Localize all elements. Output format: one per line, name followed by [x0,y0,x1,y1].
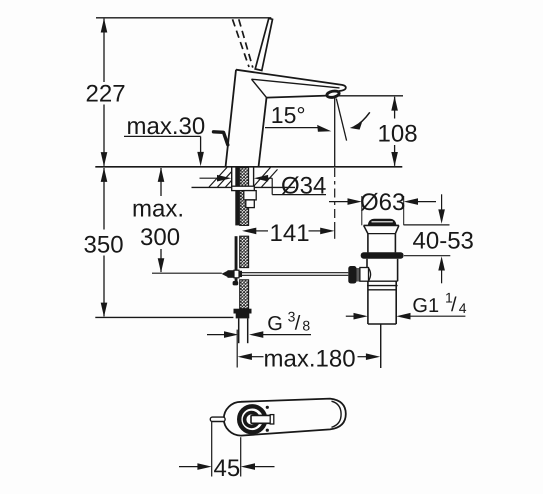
dim 45 [211,422,213,477]
rings [239,406,265,432]
svg-text:/: / [295,313,301,335]
dim 350 bottom reference line [95,316,233,318]
svg-text:350: 350 [84,232,124,259]
pop-up rod vertical [235,167,239,225]
waste body [366,259,368,281]
hatch right [254,167,271,186]
supply tube [238,318,240,343]
shank walls [231,167,233,187]
svg-text:max.: max. [132,196,184,223]
svg-text:108: 108 [378,120,418,147]
dim max300 bottom reference line [152,272,222,274]
dim G3/8 line [207,334,226,336]
knurled knob [348,266,356,284]
svg-text:G1: G1 [412,295,439,317]
curved arrow [355,112,370,126]
dim 227 top reference line [96,17,271,19]
svg-text:227: 227 [86,81,126,108]
svg-text:Ø34: Ø34 [281,173,326,200]
svg-text:141: 141 [270,220,310,247]
pin [210,417,225,421]
svg-text:40-53: 40-53 [413,227,474,254]
dim 227 vertical line [103,19,105,82]
svg-text:max.180: max.180 [264,345,356,372]
lever bar [251,415,273,423]
inner cap line [332,401,342,427]
G 3/8 fitting [234,309,252,314]
dim max300 vertical line [160,168,162,196]
dim G1 1/4 [346,315,355,317]
gasket [361,252,404,258]
pop-up rod horizontal linkage [222,271,229,278]
drain centerline below [380,324,382,368]
upper cylinder [367,234,369,253]
handle raised position (dashed) [233,19,250,67]
vertical reference from outlet [334,98,336,167]
dim 141 [242,228,256,235]
hatch left [209,167,227,187]
side paddle lever [214,132,228,145]
flange [364,224,399,226]
dim 350 vertical line [103,168,105,230]
plug dome [368,219,397,225]
crease [252,79,267,97]
dim Ø34 [200,177,219,179]
outlet aerator [326,90,339,98]
dim 108 [335,95,403,97]
svg-text:/: / [451,294,457,316]
centerline from spout to drain level [334,168,336,225]
inner top line [252,79,340,88]
svg-text:45: 45 [214,455,241,482]
capsule outline [224,399,346,436]
washer [232,186,255,190]
svg-text:4: 4 [459,300,467,316]
dim 40-53 [404,224,450,226]
svg-text:8: 8 [302,317,310,333]
body outline [236,70,346,91]
svg-text:15°: 15° [271,102,306,128]
mounting nut [244,191,256,200]
svg-text:Ø63: Ø63 [360,189,405,216]
dim max.180 [236,330,238,368]
svg-text:G: G [267,313,283,335]
braided hose / threaded shank [240,167,249,225]
slanted stream line [336,99,346,141]
dots [266,406,269,409]
svg-text:300: 300 [140,224,180,251]
handle blade solid [255,18,272,70]
Ø63 label [329,201,349,203]
